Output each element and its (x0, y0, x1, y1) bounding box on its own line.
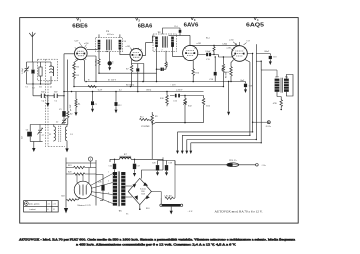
screen wire (245, 60, 250, 136)
junction grounds under V2 (142, 81, 144, 83)
wire T2 down (156, 47, 158, 82)
svg-text:C26: C26 (98, 182, 101, 184)
svg-text:C28: C28 (152, 163, 155, 165)
svg-text:R10: R10 (160, 98, 165, 100)
svg-text:L3: L3 (71, 134, 73, 136)
T1 secondary wire to V2 grid (120, 50, 130, 55)
svg-text:10nF: 10nF (54, 92, 58, 94)
fuse (227, 163, 239, 167)
svg-text:L2: L2 (49, 134, 51, 136)
svg-text:+ 12v: + 12v (261, 165, 267, 167)
svg-text:R9: R9 (155, 116, 157, 118)
dashed gang line (45, 59, 48, 147)
svg-text:C13: C13 (174, 101, 177, 103)
border frame (20, 18, 299, 224)
svg-text:– 6 V.: – 6 V. (187, 211, 194, 213)
resistor R10 (166, 92, 169, 107)
grid wire (64, 54, 75, 96)
ground (75, 112, 78, 116)
svg-text:C5: C5 (54, 100, 57, 102)
T2 primary winding (155, 37, 158, 47)
svg-text:R7: R7 (126, 69, 129, 71)
capacitor C12 (115, 92, 117, 110)
dashed tuning box (38, 59, 58, 81)
capacitor C19 (245, 82, 247, 90)
resistor R9 (151, 112, 156, 125)
svg-text:C12: C12 (118, 105, 121, 107)
tube label V4 (246, 16, 264, 28)
electrolytic C29 (166, 161, 168, 173)
B+ filter line (110, 159, 163, 178)
svg-text:100nF: 100nF (264, 51, 270, 53)
svg-text:a.250: a.250 (84, 43, 88, 45)
wire antenna bus (27, 61, 52, 63)
dashed core link (48, 145, 65, 147)
T2 secondary winding (171, 37, 174, 47)
oscillator coil L3 (65, 125, 67, 143)
feed wires left (66, 160, 96, 206)
ground (91, 109, 94, 113)
grid resistor R14 (213, 45, 215, 54)
svg-text:tensioni: tensioni (30, 209, 36, 211)
svg-text:u.285: u.285 (227, 47, 232, 49)
wire elbow 4 (191, 143, 261, 151)
svg-text:R13: R13 (206, 106, 211, 108)
IF transformer T1 box (96, 38, 123, 52)
svg-text:C29: C29 (169, 163, 172, 165)
svg-text:2: 2 (155, 49, 156, 51)
resistor R16 (192, 60, 195, 81)
wire pin (143, 64, 145, 82)
svg-text:u.282: u.282 (126, 46, 131, 48)
svg-text:a 250 V: a 250 V (176, 90, 183, 92)
svg-text:C7: C7 (42, 135, 44, 137)
svg-text:R8 100 Ω: R8 100 Ω (126, 85, 135, 87)
wire pin to bus (83, 60, 86, 82)
svg-text:3977: 3977 (275, 76, 279, 78)
AVC resistor (165, 51, 167, 69)
svg-text:R22: R22 (61, 196, 64, 198)
capacitor C8 (109, 52, 111, 62)
potentiometer R12 (183, 96, 187, 112)
capacitor C13 (170, 95, 185, 97)
svg-text:C6: C6 (26, 129, 28, 131)
svg-text:L1: L1 (50, 87, 52, 89)
svg-text:T1: T1 (106, 30, 110, 33)
wire column x67.5 (67, 60, 69, 92)
svg-text:2: 2 (108, 181, 109, 183)
wire elbow 3 (187, 140, 256, 151)
annotation V1 plate (84, 45, 86, 48)
bridge rectifier (128, 178, 151, 204)
resistor R13 (202, 96, 205, 112)
pentode V1 (75, 47, 88, 60)
capacitor C6 (29, 125, 31, 142)
capacitor C16 (214, 57, 216, 82)
volume control potentiometer (140, 118, 153, 121)
svg-text:FUS. 2A: FUS. 2A (229, 159, 237, 162)
decoupling capacitor C10 (157, 68, 167, 70)
T4 wires (277, 75, 293, 97)
svg-text:a 250: a 250 (229, 40, 233, 42)
transformer T5 primary (113, 172, 117, 206)
T1 secondary winding (119, 40, 122, 50)
svg-text:6BE6: 6BE6 (72, 23, 87, 29)
svg-text:L7: L7 (124, 154, 127, 156)
svg-text:100pF: 100pF (205, 51, 211, 53)
capacitor C9 (92, 92, 94, 109)
pentode V2 (130, 49, 142, 61)
capacitor C11 (137, 72, 139, 92)
ground (227, 112, 230, 116)
heater label 6,3V (75, 41, 80, 43)
plate wire (247, 54, 252, 132)
osc loop top wire (30, 124, 68, 126)
wire plate to T4 (260, 61, 262, 143)
svg-text:100 Ω: 100 Ω (146, 90, 152, 92)
svg-text:C16: C16 (210, 79, 213, 81)
svg-text:R16: R16 (196, 73, 199, 75)
plus terminal (267, 121, 270, 124)
bus wire y86.5 (74, 86, 223, 88)
svg-text:V1: V1 (76, 17, 81, 23)
svg-text:R2: R2 (70, 114, 72, 116)
coil L1 (50, 62, 53, 84)
svg-text:R6 47kΩ: R6 47kΩ (96, 58, 98, 66)
IF transformer T2 box (153, 34, 176, 52)
svg-text:V4: V4 (254, 16, 259, 22)
plate wire to T2 (142, 36, 155, 55)
fuse wire (167, 161, 227, 165)
trimmer capacitor C1 (24, 62, 29, 84)
svg-text:R1: R1 (39, 87, 42, 89)
bus wire y81.5 (86, 81, 214, 83)
svg-text:T2: T2 (158, 31, 162, 34)
bus wire y91.5 (64, 91, 204, 93)
wire elbow 1 (178, 132, 253, 151)
svg-text:VOLUME: VOLUME (141, 126, 150, 128)
svg-text:C3: C3 (59, 109, 61, 111)
capacitor C4 (41, 94, 44, 98)
wire connector to loop (83, 161, 91, 181)
tube label V1 (72, 17, 87, 30)
wire x256.3 (255, 44, 257, 139)
wire lower antenna bus (27, 84, 52, 96)
T5 core (118, 171, 120, 206)
svg-text:455 kc/s: 455 kc/s (107, 34, 114, 36)
T2 core (162, 36, 167, 47)
svg-text:6: 6 (48, 209, 49, 211)
svg-text:6BA6: 6BA6 (138, 23, 153, 29)
svg-text:C14: C14 (174, 26, 177, 28)
cathode resistor R7 (130, 64, 133, 87)
detector cap (171, 43, 174, 46)
svg-text:6AV6: 6AV6 (184, 22, 199, 28)
ground (33, 142, 35, 149)
vibrator (74, 181, 92, 199)
svg-text:per 250V: per 250V (70, 104, 72, 111)
ground (115, 110, 118, 114)
duodiode-triode V3 (183, 45, 198, 60)
svg-text:L2: L2 (56, 122, 58, 124)
svg-text:1: 1 (108, 172, 109, 174)
svg-text:C27: C27 (137, 166, 140, 168)
svg-text:+6,3V: +6,3V (97, 90, 103, 92)
svg-text:4: 4 (108, 202, 109, 204)
transformer T5 secondary (121, 172, 125, 206)
resistor R8 inline (88, 85, 96, 87)
svg-text:R14: R14 (206, 37, 209, 39)
oscillator coil L2 (54, 125, 56, 142)
tube label V3 (184, 16, 199, 28)
svg-text:R12: R12 (140, 117, 143, 119)
annotation V2 grid (130, 47, 132, 50)
svg-text:+B 12v: +B 12v (265, 126, 271, 128)
svg-text:R20: R20 (68, 172, 71, 174)
coupling capacitor C15 (198, 55, 235, 58)
svg-text:C15: C15 (206, 59, 209, 61)
svg-text:R3: R3 (77, 75, 80, 77)
svg-text:R12: R12 (188, 106, 192, 108)
wire volume bus (156, 112, 204, 123)
svg-text:3÷30pF: 3÷30pF (21, 68, 24, 74)
tube label V2 (135, 17, 152, 30)
svg-text:6,3: 6,3 (119, 90, 122, 92)
svg-text:R4: R4 (78, 104, 80, 106)
T1 core (106, 40, 111, 51)
svg-text:C17: C17 (247, 41, 250, 43)
ground (244, 89, 247, 93)
svg-text:C2: C2 (32, 88, 35, 90)
electrolytic C27 (134, 159, 136, 173)
screen wire (87, 56, 96, 82)
capacitor C26 (102, 177, 104, 199)
output pentode V4 (232, 46, 248, 62)
svg-text:5nF: 5nF (21, 136, 23, 139)
resistor R4 (75, 92, 77, 113)
ground (66, 142, 68, 149)
wires into T5 (91, 174, 113, 204)
choke L7 (120, 158, 132, 160)
annotation V4 grid (231, 49, 234, 51)
capacitor C5 (54, 94, 57, 98)
trimmer C7 (37, 125, 42, 142)
svg-text:+ 12 V: + 12 V (170, 85, 176, 87)
svg-text:12: 12 (53, 209, 55, 211)
osc loop bottom wire (30, 141, 42, 143)
switch 6/12V (160, 198, 162, 204)
svg-text:C250: C250 (141, 194, 145, 196)
svg-text:AUTOVOX mod. RA 70 a 6 e: AUTOVOX mod. RA 70 a 6 e 12 V. (215, 210, 264, 214)
svg-text:47Ω: 47Ω (273, 103, 277, 105)
plate wire to T1 (87, 48, 98, 50)
svg-text:Vibratore 6÷12V: Vibratore 6÷12V (77, 204, 91, 207)
svg-text:10nF: 10nF (41, 92, 45, 94)
resistor R20 (66, 173, 96, 175)
grid cap C14 (163, 28, 190, 35)
resistor R6 column (98, 50, 100, 74)
svg-text:C9: C9 (94, 104, 96, 106)
svg-text:C25: C25 (109, 166, 112, 168)
resistor R3 (73, 72, 76, 87)
svg-text:R2: R2 (77, 66, 80, 68)
svg-text:6,3V: 6,3V (75, 41, 80, 43)
svg-text:1,2kΩ: 1,2kΩ (222, 43, 228, 45)
ground (269, 61, 272, 65)
svg-text:C19: C19 (249, 86, 252, 88)
resistor R2 (73, 63, 76, 71)
capacitor C18 (256, 54, 270, 62)
svg-text:C1: C1 (25, 87, 28, 89)
connector number 1 (88, 157, 92, 161)
svg-text:V3: V3 (191, 16, 196, 22)
svg-text:T5: T5 (119, 209, 123, 212)
antenna (29, 32, 35, 62)
svg-text:posiz. gamma: posiz. gamma (29, 202, 40, 205)
resistor R17 (277, 97, 283, 109)
battery terminal (239, 164, 256, 166)
svg-text:C8: C8 (113, 61, 115, 63)
svg-text:6AQ5: 6AQ5 (246, 22, 264, 28)
svg-text:V2: V2 (135, 17, 140, 23)
svg-text:C4: C4 (42, 100, 45, 102)
svg-text:B+ 250 V: B+ 250 V (108, 80, 117, 82)
T4 core (281, 78, 282, 93)
capacitor C2 (32, 62, 34, 84)
cathode column wires (74, 59, 78, 63)
T1 primary winding (98, 40, 101, 50)
output transformer T4 primary (275, 79, 280, 92)
T2 secondary wire to V3 grid (173, 47, 184, 56)
volume potentiometer R11 (222, 57, 226, 87)
svg-text:R15: R15 (226, 72, 229, 74)
resistor R19 (66, 166, 96, 168)
ground (47, 96, 49, 103)
T4 feed wires (256, 61, 277, 77)
svg-text:2: 2 (162, 49, 163, 51)
cathode bottom loop (132, 60, 144, 69)
cathode bypass wire (228, 82, 230, 112)
svg-text:A.Rx R21: A.Rx R21 (164, 194, 172, 197)
svg-text:C10: C10 (123, 41, 126, 43)
T4 secondary (284, 79, 289, 92)
svg-text:T5: T5 (126, 214, 128, 216)
wire elbow 2 (182, 135, 250, 151)
svg-text:AUTOVOX - Mod. RA 70 per FIAT: AUTOVOX - Mod. RA 70 per FIAT 600. Onde … (19, 238, 295, 242)
svg-text:3: 3 (108, 193, 109, 195)
svg-text:C18: C18 (273, 57, 276, 59)
svg-text:R18: R18 (146, 208, 149, 210)
svg-text:R19: R19 (68, 165, 71, 167)
annotation V3 (197, 43, 202, 45)
padder capacitor C3 (63, 96, 65, 111)
svg-text:1M: 1M (167, 63, 169, 66)
svg-text:a 12: a 12 (53, 203, 56, 205)
electrolytic C28 (157, 161, 159, 173)
resistor feed to bus (67, 92, 69, 125)
svg-text:u.283: u.283 (197, 43, 202, 45)
osc label (56, 122, 58, 124)
cathode resistor R15 (230, 60, 234, 82)
svg-text:a 6: a 6 (48, 203, 50, 205)
inner caption (215, 210, 264, 214)
resistor R1 (39, 67, 42, 76)
svg-text:a 455 kc/s. Alimentazione comm: a 455 kc/s. Alimentazione commutabile pe… (76, 242, 236, 247)
L2/L3 core dashed (59, 126, 61, 143)
electrolytic C25 (114, 159, 116, 173)
T1 secondary label (123, 41, 126, 43)
screen bus wire (99, 72, 157, 74)
